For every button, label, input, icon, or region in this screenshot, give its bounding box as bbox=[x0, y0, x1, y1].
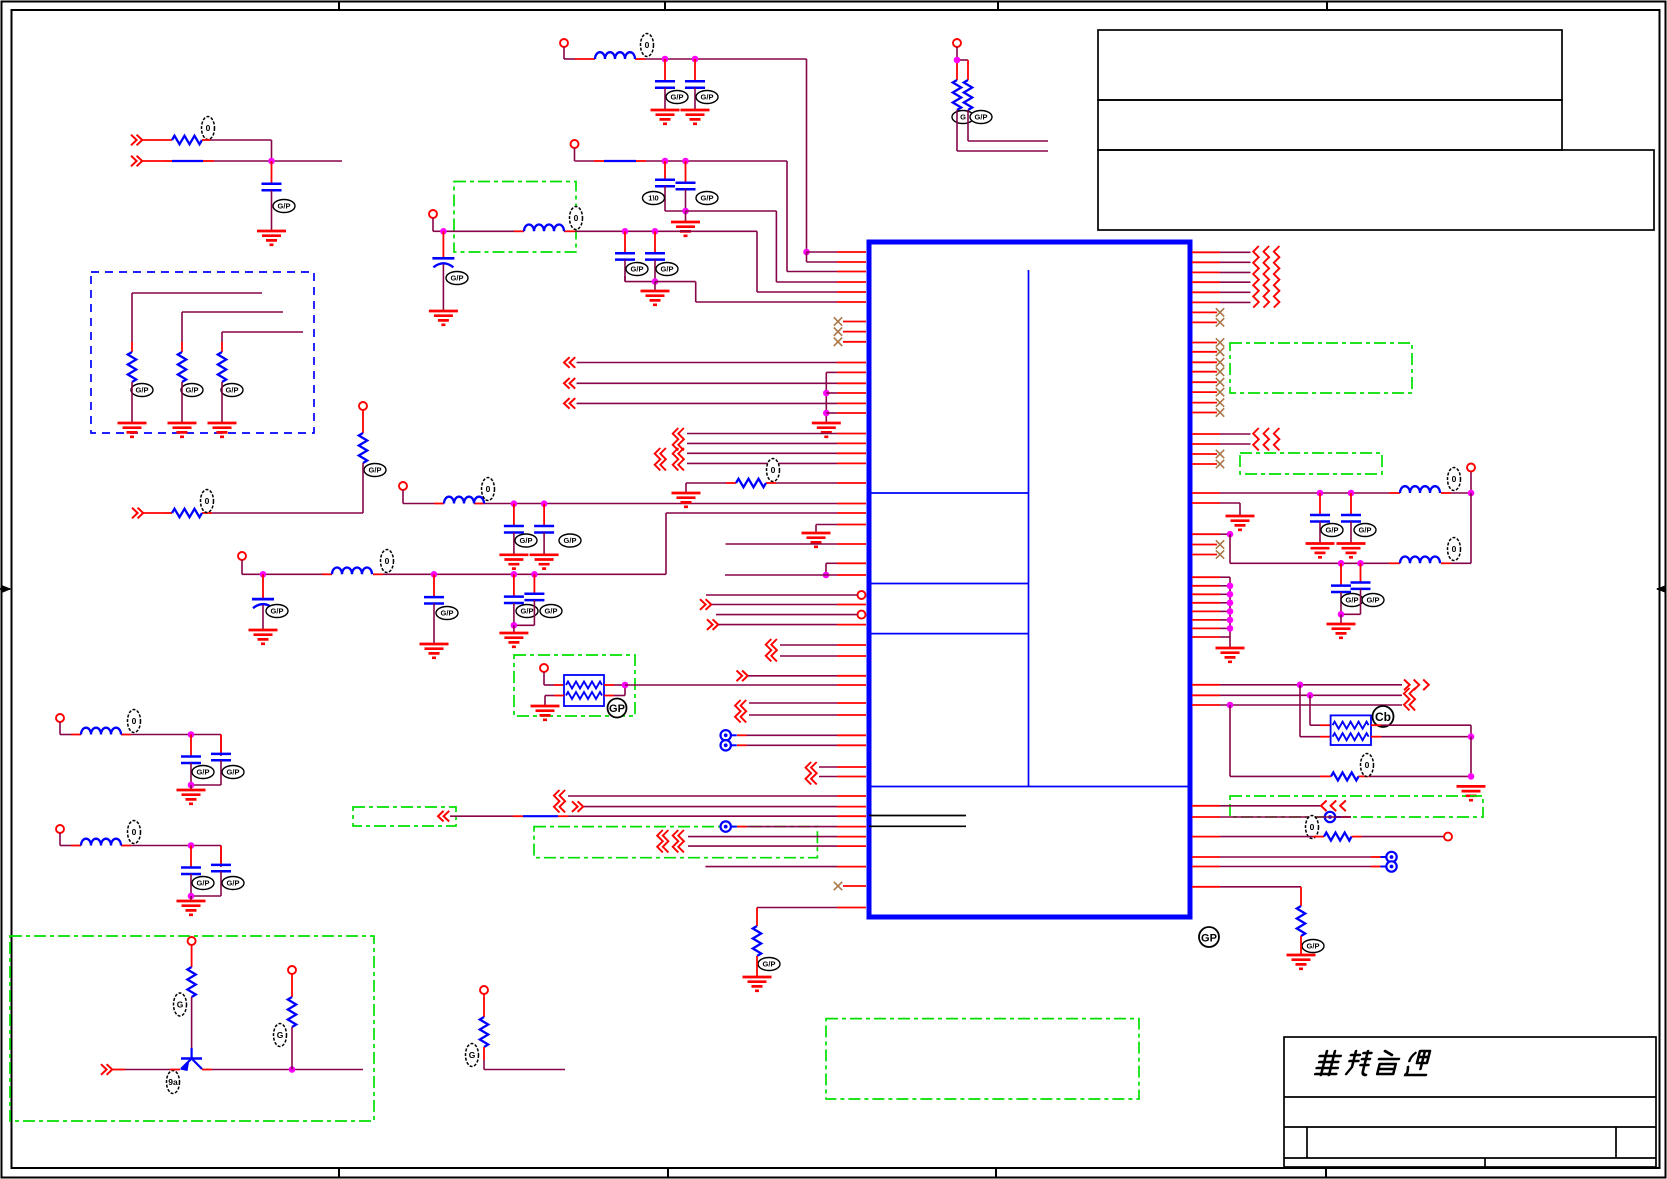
svg-text:G/P: G/P bbox=[278, 202, 291, 211]
junction bbox=[1468, 773, 1475, 780]
resistor R8 bbox=[753, 926, 780, 971]
off-page connector OUT4 bbox=[1404, 680, 1429, 691]
no-connect pin stub bbox=[1192, 453, 1217, 455]
terminal post bbox=[288, 966, 296, 974]
net VA rail bbox=[60, 722, 221, 756]
svg-text:G/P: G/P bbox=[1359, 526, 1372, 535]
wire net RT5 bbox=[1192, 291, 1251, 293]
net VCC1 rail bbox=[564, 47, 807, 252]
capacitor C3 bbox=[534, 504, 581, 555]
bus ripper group C1 bbox=[673, 428, 684, 450]
net VCC1 to IC pin bbox=[807, 251, 867, 253]
off-page connector IN2 bbox=[131, 156, 142, 167]
IC U1 internal black line 1 bbox=[869, 815, 966, 817]
terminal post VCC1 bbox=[560, 39, 568, 47]
test point connector TP5 bbox=[1381, 852, 1397, 862]
border center arrow left bbox=[0, 585, 12, 592]
power net A down link bbox=[1470, 493, 1472, 563]
resistor R11 bbox=[466, 1017, 489, 1067]
svg-text:0: 0 bbox=[645, 40, 650, 50]
junction bbox=[1317, 490, 1324, 497]
test point connector TP6 bbox=[1381, 861, 1397, 871]
resistor R4 bbox=[218, 352, 243, 397]
no-connect X bbox=[834, 327, 842, 335]
resistor R6 bbox=[172, 490, 214, 518]
no-connect X bbox=[1216, 348, 1224, 356]
ground lead bbox=[190, 896, 192, 901]
no-connect X bbox=[1216, 460, 1224, 468]
wire net pin 624 bbox=[719, 624, 867, 626]
svg-text:0: 0 bbox=[385, 556, 390, 566]
no-connect X bbox=[1216, 540, 1224, 548]
capacitor C7 join bbox=[514, 620, 535, 626]
junction bbox=[188, 893, 195, 900]
title block row dividers bbox=[1284, 1097, 1656, 1158]
svg-text:G: G bbox=[177, 1000, 184, 1010]
IC pin 534 stub bbox=[1192, 533, 1230, 535]
svg-text:G/P: G/P bbox=[701, 93, 714, 102]
IC pin chain stub 7 bbox=[1192, 627, 1230, 629]
wire net C2b bbox=[687, 462, 866, 464]
junction bbox=[1468, 733, 1475, 740]
off-page connector IN6 bbox=[737, 671, 748, 682]
wire to transistor emitter bbox=[112, 1069, 180, 1071]
junction bbox=[1338, 611, 1345, 618]
no-connect X bbox=[1216, 378, 1224, 386]
inductor L8 bbox=[1400, 538, 1461, 564]
net VCC2 rail bbox=[575, 148, 867, 272]
border zone tick marks bottom bbox=[339, 1168, 1326, 1178]
no-connect pin stub bbox=[1192, 412, 1217, 414]
no-connect pin stub L2 bbox=[843, 331, 866, 333]
resistor R3 top lead bbox=[181, 342, 183, 352]
wire net pin 846 bbox=[688, 845, 866, 847]
svg-text:G/P: G/P bbox=[227, 879, 240, 888]
svg-text:G/P: G/P bbox=[197, 879, 210, 888]
off-page connector IN3 bbox=[132, 508, 143, 519]
net VCC3 rail bbox=[433, 218, 866, 292]
net VB rail bbox=[60, 833, 221, 867]
inverted pin bubble bbox=[858, 611, 866, 619]
ground bbox=[641, 291, 670, 305]
net bus stub pin 393 bbox=[826, 392, 866, 394]
wire net RT6 bbox=[1192, 301, 1251, 303]
capacitor C17 bbox=[181, 846, 214, 897]
revision table box 2 bbox=[1098, 100, 1562, 150]
capacitor C2 bbox=[504, 504, 537, 555]
test point connector TP4 bbox=[1325, 812, 1341, 822]
wire net pin 836 bbox=[688, 836, 866, 838]
label Q1 bbox=[167, 1071, 180, 1094]
no-connect pin stub L3 bbox=[843, 341, 866, 343]
inductor L1 bbox=[595, 34, 654, 60]
junction bbox=[431, 571, 438, 578]
wire net pin 796 bbox=[568, 795, 866, 797]
net VCC1 to IC pin 2 bbox=[807, 252, 867, 262]
resistor R10 bottom lead bbox=[291, 1027, 293, 1070]
bus ripper pins 703-715 bbox=[735, 700, 746, 722]
bus ripper group C2 bbox=[655, 448, 684, 470]
net bus stub pin 413 bbox=[826, 412, 866, 414]
resistor R3 bottom lead bbox=[181, 382, 183, 423]
junction bbox=[188, 782, 195, 789]
capacitor C1 bbox=[262, 161, 296, 231]
wire net IN3 bbox=[143, 512, 363, 514]
capacitor C15 bbox=[181, 735, 214, 786]
resistor R4 bottom lead bbox=[221, 382, 223, 423]
wire net pin 703 bbox=[749, 702, 866, 704]
junction bbox=[954, 57, 961, 64]
ground lead bbox=[513, 625, 515, 633]
terminal post VT bbox=[953, 39, 961, 47]
wire net RB7 bbox=[1192, 866, 1381, 868]
junction bbox=[1338, 560, 1345, 567]
off-page connector IN8 bbox=[438, 811, 449, 822]
svg-text:G: G bbox=[277, 1030, 284, 1040]
capacitor C8 bbox=[655, 59, 688, 110]
resistor R12 bbox=[953, 80, 961, 110]
green function box G1 bbox=[454, 182, 576, 253]
svg-text:G: G bbox=[960, 113, 966, 122]
junction bbox=[662, 158, 669, 165]
green note box G6 bbox=[826, 1019, 1139, 1099]
resistor R7 bbox=[736, 459, 780, 488]
net RB2 drop bbox=[1310, 695, 1331, 725]
label R12 bbox=[952, 111, 974, 124]
wire net RM1 bbox=[1192, 433, 1251, 435]
terminal post bbox=[540, 664, 548, 672]
net pin 906 bbox=[757, 908, 866, 927]
ground bbox=[177, 901, 206, 915]
wire net RB6 bbox=[1192, 856, 1381, 858]
wire net RB3 bbox=[1192, 704, 1402, 706]
IC U1 internal black line 2 bbox=[869, 825, 966, 827]
capacitor C22 join bbox=[1341, 608, 1361, 614]
junction bbox=[1227, 608, 1234, 615]
capacitor C18 join bbox=[191, 891, 221, 896]
wire net pin 767 bbox=[819, 766, 866, 768]
label R13 bbox=[970, 111, 992, 124]
ground bus vertical right bbox=[1229, 577, 1231, 648]
junction bbox=[622, 682, 629, 689]
no-connect pin stub bbox=[1192, 463, 1217, 465]
no-connect pin stub bbox=[1192, 391, 1217, 393]
svg-text:0: 0 bbox=[1365, 760, 1370, 770]
ground bbox=[168, 423, 197, 437]
svg-text:0: 0 bbox=[132, 827, 137, 837]
inductor L5 bbox=[81, 710, 141, 735]
polarized capacitor C12 bbox=[432, 231, 468, 311]
bus ripper right top group bbox=[1253, 246, 1279, 308]
svg-text:G/P: G/P bbox=[520, 536, 533, 545]
capacitor C21 bbox=[1331, 563, 1363, 614]
svg-text:GP: GP bbox=[1201, 933, 1217, 945]
resistor R16 bottom lead bbox=[1300, 936, 1302, 955]
junction bbox=[1227, 591, 1234, 598]
net VCC5 rail bbox=[242, 513, 866, 574]
net VT leads bbox=[957, 47, 968, 80]
svg-text:G/P: G/P bbox=[136, 386, 149, 395]
wire net C1b bbox=[687, 442, 866, 444]
svg-text:G/P: G/P bbox=[226, 386, 239, 395]
ground bbox=[429, 311, 458, 325]
junction bbox=[823, 390, 830, 397]
no-connect X bbox=[834, 317, 842, 325]
wire net pin 604 bbox=[712, 604, 867, 606]
blue dashed option box bbox=[91, 272, 314, 433]
bus ripper right low group bbox=[1404, 688, 1415, 710]
ground lead bbox=[685, 211, 687, 222]
svg-text:G/P: G/P bbox=[564, 536, 577, 545]
junction bbox=[511, 500, 518, 507]
label R14 bbox=[1361, 754, 1374, 777]
resistor R13 out wire bbox=[968, 110, 1048, 141]
svg-text:G/P: G/P bbox=[521, 607, 534, 616]
ground bbox=[1216, 648, 1245, 662]
ground bbox=[671, 222, 700, 236]
capacitor C20 bbox=[1341, 493, 1376, 544]
wire net OUT1 bbox=[577, 362, 867, 364]
filter network FB1 (dual element) bbox=[564, 675, 604, 706]
junction node IN2 bbox=[268, 158, 275, 165]
wire net pin 544 bbox=[726, 543, 867, 545]
svg-text:G/P: G/P bbox=[975, 113, 988, 122]
IC U1 internal divider section 2 bbox=[869, 583, 1029, 585]
junction bbox=[188, 842, 195, 849]
no-connect pin stub bbox=[1192, 351, 1217, 353]
no-connect pin stub bbox=[1192, 544, 1217, 546]
no-connect pin stub bbox=[1192, 554, 1217, 556]
svg-text:Cb: Cb bbox=[1375, 710, 1391, 724]
no-connect pin stub bbox=[1192, 402, 1217, 404]
no-connect pin stub bbox=[843, 885, 866, 887]
resistor R5 bottom to wire bbox=[362, 463, 364, 513]
ground bbox=[743, 977, 772, 991]
terminal post VCC2 bbox=[571, 140, 579, 148]
wire net RB2 bbox=[1192, 694, 1402, 696]
inductor L3 bbox=[332, 550, 394, 575]
label GP right bbox=[1199, 927, 1219, 947]
wire net pin 806 bbox=[584, 806, 866, 808]
power net B vertical bbox=[1229, 534, 1231, 563]
ground bbox=[118, 423, 147, 437]
wire to resistor R4 bbox=[222, 332, 303, 342]
svg-text:G/P: G/P bbox=[369, 466, 382, 475]
off-page connector OUT3 bbox=[564, 398, 575, 409]
title block outline bbox=[1284, 1037, 1656, 1167]
wire net RB4 bbox=[1192, 805, 1321, 807]
net bus stub pin 372 bbox=[826, 372, 866, 423]
svg-text:0: 0 bbox=[205, 496, 210, 506]
green function box G2 bbox=[514, 655, 635, 716]
svg-text:G/P: G/P bbox=[441, 609, 454, 618]
svg-text:G/P: G/P bbox=[701, 194, 714, 203]
green function box G5 bbox=[10, 936, 374, 1121]
inductor L2 bbox=[444, 478, 495, 504]
terminal post bbox=[359, 402, 367, 410]
svg-text:G/P: G/P bbox=[271, 607, 284, 616]
capacitor C16 bbox=[211, 735, 244, 780]
svg-text:0: 0 bbox=[1310, 822, 1315, 832]
wire net RB5 bbox=[1192, 816, 1351, 818]
junction bbox=[1357, 560, 1364, 567]
no-connect X bbox=[834, 338, 842, 346]
resistor R9 bottom lead bbox=[191, 997, 193, 1048]
resistor R14 net bbox=[1230, 775, 1471, 777]
GP box output leads bbox=[604, 685, 625, 696]
ground bbox=[812, 423, 841, 437]
bus ripper pins 645-656 bbox=[766, 639, 777, 661]
IC U1 internal divider section 1 bbox=[869, 492, 1029, 494]
wire net RM2 bbox=[1192, 443, 1251, 445]
terminal post VR1 bbox=[1467, 464, 1475, 472]
power net A rail bbox=[1192, 472, 1471, 494]
junction bbox=[682, 208, 689, 215]
IC pin chain stub 3 bbox=[1192, 593, 1230, 595]
terminal post VCC4 bbox=[399, 482, 407, 490]
terminal post VB bbox=[56, 825, 64, 833]
svg-text:G/P: G/P bbox=[661, 265, 674, 274]
FB2 output top bbox=[1371, 725, 1471, 737]
IC pin chain stub 5 bbox=[1192, 610, 1230, 612]
no-connect pin stub bbox=[1192, 381, 1217, 383]
resistor R15 bbox=[1324, 833, 1351, 841]
no-connect X bbox=[1216, 358, 1224, 366]
off-page connector IN1 bbox=[131, 135, 142, 146]
capacitor C13 join bbox=[625, 276, 655, 282]
wire net pin 745 bbox=[737, 744, 866, 746]
terminal post bbox=[480, 986, 488, 994]
no-connect pin stub bbox=[1192, 321, 1217, 323]
ground bbox=[257, 231, 286, 245]
label R15 bbox=[1306, 816, 1319, 839]
capacitor C6 bbox=[504, 574, 538, 625]
ground bbox=[1327, 624, 1356, 638]
wire net pin 866 bbox=[705, 866, 866, 868]
wire net pin 715 bbox=[749, 714, 866, 716]
resistor R4 top lead bbox=[221, 342, 223, 352]
junction bbox=[511, 622, 518, 629]
resistor R3 bbox=[178, 352, 203, 397]
test point connector TP1 bbox=[721, 730, 737, 740]
wire to bubble pin 595 bbox=[706, 594, 858, 596]
ground bbox=[1287, 955, 1316, 969]
label Cb bbox=[1373, 706, 1394, 727]
svg-text:G/P: G/P bbox=[1367, 596, 1380, 605]
ground bbox=[802, 533, 831, 547]
border zone tick marks top bbox=[339, 2, 1327, 11]
ground bbox=[177, 790, 206, 804]
resistor R5 top lead bbox=[362, 410, 364, 433]
capacitor C10 bbox=[643, 161, 676, 205]
ground lead bbox=[190, 785, 192, 790]
ground bbox=[208, 423, 237, 437]
no-connect X bbox=[1216, 450, 1224, 458]
label GP bbox=[608, 699, 627, 718]
svg-text:0: 0 bbox=[206, 123, 211, 133]
ground lead bbox=[654, 282, 656, 291]
junction bbox=[682, 158, 689, 165]
net cap midpoint to IC pin bbox=[655, 282, 866, 302]
svg-text:GP: GP bbox=[609, 703, 625, 715]
net cap midpoint to IC bbox=[686, 211, 867, 282]
green note box R3 bbox=[1230, 796, 1483, 817]
net VCC4 rail bbox=[403, 490, 866, 504]
wire to resistor R2 bbox=[132, 293, 262, 342]
svg-text:G/P: G/P bbox=[1326, 526, 1339, 535]
wire net pin 776 bbox=[819, 776, 866, 778]
wire net pin 735 bbox=[737, 734, 866, 736]
ground bbox=[1226, 516, 1255, 530]
wire net OUT2 bbox=[577, 382, 867, 384]
svg-text:0: 0 bbox=[771, 465, 776, 475]
resistor R16 bbox=[1297, 906, 1324, 953]
transistor collector net bbox=[202, 1069, 363, 1071]
resistor R12 out wire bbox=[957, 110, 1048, 151]
IC pin chain stub 6 bbox=[1192, 619, 1230, 621]
ground bbox=[672, 493, 701, 507]
junction bbox=[652, 228, 659, 235]
off-page connector IN10 bbox=[1321, 801, 1346, 812]
junction bbox=[1227, 625, 1234, 632]
wire net IN1 resistor lead bbox=[142, 139, 172, 141]
ground bbox=[681, 110, 710, 124]
capacitor C19 bbox=[1310, 493, 1343, 544]
junction bbox=[1348, 490, 1355, 497]
wire net RT4 bbox=[1192, 281, 1251, 283]
capacitor C7 bbox=[524, 574, 562, 619]
title block column dividers bbox=[1307, 1127, 1616, 1167]
ground bbox=[1337, 544, 1366, 558]
junction bbox=[260, 571, 267, 578]
capacitor C14 bbox=[645, 231, 678, 281]
terminal post VCC5 bbox=[238, 552, 246, 560]
no-connect X bbox=[1216, 550, 1224, 558]
IC U1 internal vertical divider bbox=[1028, 270, 1030, 787]
resistor R2 bottom lead bbox=[131, 382, 133, 423]
junction bbox=[803, 249, 810, 256]
filter network FB2 Cb (dual element) bbox=[1331, 715, 1371, 745]
bus ripper pins 836-846 bbox=[657, 830, 684, 852]
svg-text:G: G bbox=[469, 1050, 476, 1060]
inductor L7 bbox=[1400, 468, 1461, 494]
svg-text:G/P: G/P bbox=[763, 960, 776, 969]
junction bbox=[289, 1066, 296, 1073]
svg-text:G/P: G/P bbox=[227, 768, 240, 777]
FB2 output bottom bbox=[1371, 736, 1471, 738]
svg-text:9a: 9a bbox=[168, 1077, 178, 1087]
bus ripper pins 767-776 bbox=[806, 762, 817, 784]
capacitor C18 bbox=[211, 846, 244, 891]
net RB3 drop bbox=[1229, 705, 1231, 776]
svg-text:0: 0 bbox=[1452, 544, 1457, 554]
wire net RB8 bbox=[1192, 887, 1301, 906]
terminal post VA bbox=[56, 714, 64, 722]
GP box ground lead bbox=[545, 696, 564, 707]
svg-text:G/P: G/P bbox=[545, 607, 558, 616]
no-connect X bbox=[1216, 368, 1224, 376]
resistor R11 bottom lead bbox=[484, 1047, 565, 1070]
green function box G4 bbox=[534, 827, 817, 858]
svg-text:G/P: G/P bbox=[1307, 942, 1320, 951]
IC pin chain stub 1 bbox=[1192, 576, 1230, 578]
junction bbox=[1227, 531, 1234, 538]
wire net RT2 bbox=[1192, 261, 1251, 263]
off-page connector OUT2 bbox=[564, 378, 575, 389]
test point connector TP2 bbox=[721, 740, 737, 750]
inductor L4 bbox=[524, 207, 583, 232]
bus ripper pins 796-806 bbox=[554, 790, 565, 812]
